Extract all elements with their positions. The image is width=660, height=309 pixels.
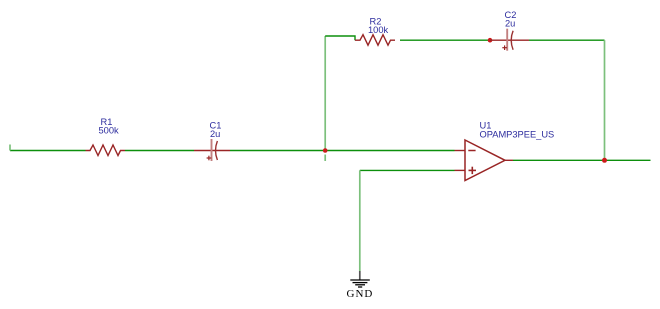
svg-text:GND: GND xyxy=(347,288,374,300)
ground GND symbol xyxy=(350,280,370,287)
node C junction dot xyxy=(602,158,607,163)
wire feedback vertical right xyxy=(604,40,606,160)
wire input left segment xyxy=(10,150,86,152)
wire R2 to C2 (gap at pin) xyxy=(400,39,490,41)
wire node A to opamp minus xyxy=(325,150,455,152)
wire opamp plus to ground horizontal xyxy=(360,169,455,171)
wire feedback top left xyxy=(325,36,355,40)
pin opamp output xyxy=(505,159,513,161)
wire stub below node A xyxy=(324,155,326,162)
pin opamp minus input xyxy=(455,150,466,152)
opamp U1 xyxy=(465,120,554,180)
wire C2 to right vertical xyxy=(529,39,605,41)
wire C1 to node A xyxy=(230,150,325,152)
svg-text:100k: 100k xyxy=(368,25,389,35)
node input terminal tick xyxy=(9,145,11,151)
wire ground vertical xyxy=(359,170,361,271)
wire feedback vertical left xyxy=(324,36,326,151)
capacitor C1 xyxy=(194,120,230,161)
pin opamp plus input xyxy=(455,169,466,171)
ground stub xyxy=(359,271,361,280)
resistor R1 xyxy=(86,145,126,156)
svg-text:OPAMP3PEE_US: OPAMP3PEE_US xyxy=(480,130,555,140)
capacitor C2 xyxy=(490,10,529,51)
wire R1 to C1 xyxy=(125,150,194,152)
node B junction dot xyxy=(488,38,493,43)
resistor R2 xyxy=(355,35,395,46)
wire opamp output xyxy=(513,159,651,161)
node A junction dot xyxy=(323,148,328,153)
svg-text:500k: 500k xyxy=(99,126,120,136)
svg-text:2u: 2u xyxy=(210,129,220,139)
svg-text:2u: 2u xyxy=(505,19,515,29)
